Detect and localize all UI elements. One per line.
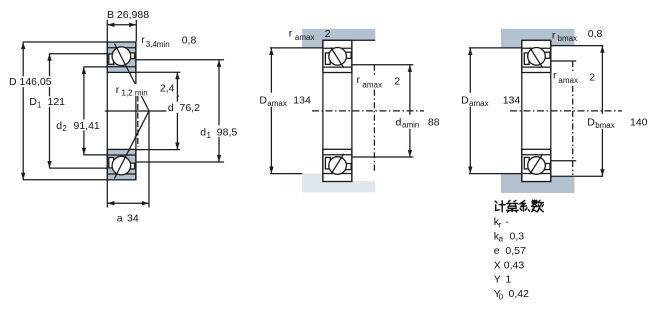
svg-text:X: X <box>494 259 501 271</box>
bearing bottom edge <box>323 180 352 182</box>
svg-text:2: 2 <box>325 28 331 40</box>
shaft shoulder leader bottom <box>551 160 576 162</box>
svg-text:d: d <box>168 102 174 114</box>
ra leader vertical <box>572 61 574 175</box>
svg-text:d: d <box>200 127 206 139</box>
svg-text:amax: amax <box>267 99 287 108</box>
label r1,2 min <box>114 84 152 98</box>
ra leader vertical <box>373 65 375 172</box>
label Damax 134 <box>258 93 311 108</box>
label ramax 2 (middle) <box>355 74 400 90</box>
svg-text:bmax: bmax <box>558 34 578 43</box>
bearing lower section <box>323 149 352 181</box>
bearing left face line <box>521 40 523 181</box>
dimension line d <box>175 72 179 149</box>
dimension line B <box>107 23 136 27</box>
Damax bottom leader + tab top edge <box>469 173 522 175</box>
dimension line a <box>107 201 149 205</box>
label rbmax 0,8 <box>552 28 603 43</box>
dimension line D <box>21 42 25 180</box>
label r3,4min 0,8 <box>141 34 196 49</box>
svg-text:d: d <box>56 120 62 132</box>
row e 0,57 <box>494 245 526 257</box>
svg-text:121: 121 <box>48 96 66 108</box>
bearing bottom edge <box>522 181 551 183</box>
svg-text:88: 88 <box>428 116 440 128</box>
dimension B extension lines <box>107 20 136 42</box>
label a 34 <box>117 213 139 225</box>
svg-text:1: 1 <box>207 131 212 140</box>
mirrored pale tab (bottom left) <box>302 174 323 181</box>
tab b bottom edge + Dbmax top leader <box>551 45 604 47</box>
svg-text:D 146,05: D 146,05 <box>9 76 52 88</box>
svg-text:0,8: 0,8 <box>588 28 603 40</box>
dimension a extension lines <box>107 111 149 208</box>
label D1 121 <box>29 96 65 109</box>
housing shoulder bar (top) <box>302 29 375 41</box>
row X 0,43 <box>494 259 525 271</box>
svg-text:r: r <box>116 84 120 96</box>
dimension line Dbmax <box>600 46 604 177</box>
svg-text:2: 2 <box>62 124 67 133</box>
heading 计算系数 (drawn strokes) <box>495 200 543 212</box>
shoulder tab (top left) <box>501 40 522 48</box>
svg-text:0,43: 0,43 <box>504 259 525 271</box>
axis line <box>105 110 170 112</box>
shoulder bottom edge + Damax top leader <box>469 47 522 49</box>
shaft shoulder leader top <box>352 64 414 66</box>
svg-text:1: 1 <box>505 274 511 286</box>
dimension D leaders <box>23 42 108 180</box>
svg-text:bmax: bmax <box>595 121 615 130</box>
r1,2 leader line <box>137 96 139 148</box>
row ka 0,3 <box>494 230 525 243</box>
dimension line Damax <box>269 48 273 174</box>
label 2,4 <box>160 83 179 97</box>
bar bottom edge <box>323 39 375 41</box>
svg-text:134: 134 <box>293 95 311 107</box>
svg-text:134: 134 <box>503 95 521 107</box>
row Y 1 <box>494 274 512 286</box>
dimension line damin <box>408 65 412 157</box>
shoulder tab b (top right) <box>551 40 575 45</box>
label damin 88 <box>394 115 440 130</box>
svg-text:D: D <box>259 95 267 107</box>
svg-text:r: r <box>552 29 556 41</box>
label ramax (top) <box>289 27 331 42</box>
housing bar (top) <box>501 29 575 41</box>
row kr - <box>494 216 510 229</box>
bearing right face line <box>550 40 552 181</box>
mirrored tab (bottom left) <box>501 174 522 182</box>
svg-text:D: D <box>461 95 469 107</box>
svg-text:0,42: 0,42 <box>509 288 530 300</box>
bearing right face line <box>135 42 137 180</box>
row Y0 0,42 <box>494 288 529 301</box>
label d2 91,41 <box>56 120 103 134</box>
svg-text:76,2: 76,2 <box>180 102 201 114</box>
housing shoulder tab (top left) <box>302 40 323 48</box>
svg-text:0,57: 0,57 <box>505 245 526 257</box>
dimension line d2 <box>82 67 86 155</box>
bearing upper section <box>323 40 352 72</box>
svg-text:1: 1 <box>37 100 42 109</box>
mirrored tab b (bottom right) <box>551 176 575 181</box>
svg-text:a: a <box>117 213 123 225</box>
label d 76,2 <box>166 102 201 114</box>
svg-text:d: d <box>396 116 402 128</box>
dimension line Damax <box>468 48 472 174</box>
svg-text:e: e <box>494 245 500 257</box>
svg-text:amax: amax <box>295 33 315 42</box>
mirrored pale bar (bottom) <box>302 181 375 193</box>
svg-text:1,2 min: 1,2 min <box>122 89 148 98</box>
shoulder bottom edge + Damax top leader <box>270 47 323 49</box>
svg-text:B 26,988: B 26,988 <box>107 9 149 21</box>
contact angle line upper <box>115 44 150 111</box>
svg-text:amax: amax <box>558 76 578 85</box>
axis line <box>510 110 622 112</box>
svg-text:3,4min: 3,4min <box>146 40 170 49</box>
svg-text:amax: amax <box>362 80 382 89</box>
bearing left face line <box>322 40 324 181</box>
shaft shoulder leader bottom <box>352 156 414 158</box>
label B 26,988 <box>107 9 149 21</box>
svg-text:amin: amin <box>402 121 419 130</box>
dimension d2 leaders <box>83 67 107 155</box>
label Dbmax 140 <box>586 114 649 130</box>
svg-text:r: r <box>553 69 557 81</box>
bearing right face line <box>351 40 353 181</box>
bearing lower section <box>107 149 136 179</box>
contact angle line lower <box>115 111 150 178</box>
label ramax 2 (middle) <box>552 69 596 85</box>
bar bottom edge <box>522 39 551 41</box>
svg-text:r: r <box>499 220 502 229</box>
dimension d1 leaders <box>136 60 224 162</box>
svg-text:r: r <box>357 74 361 86</box>
bearing left face line <box>106 42 108 180</box>
svg-text:34: 34 <box>127 213 139 225</box>
svg-text:r: r <box>289 27 293 39</box>
svg-text:2: 2 <box>589 71 595 83</box>
svg-text:D: D <box>587 117 595 129</box>
bearing upper section <box>107 42 136 72</box>
svg-text:2,4: 2,4 <box>160 83 175 95</box>
tab b top edge + Dbmax bottom leader <box>551 175 604 177</box>
svg-text:Y: Y <box>494 274 501 286</box>
dimension line d1 <box>217 60 221 162</box>
shaft shoulder leader top <box>551 60 576 62</box>
svg-text:91,41: 91,41 <box>74 120 100 132</box>
Damax bottom leader <box>270 173 302 175</box>
svg-text:140: 140 <box>630 117 648 129</box>
bearing lower section <box>522 149 551 181</box>
svg-text:0,8: 0,8 <box>182 35 197 47</box>
svg-text:-: - <box>505 216 509 228</box>
svg-text:2: 2 <box>394 75 400 87</box>
mirrored bar (bottom) <box>501 182 575 194</box>
svg-text:0,3: 0,3 <box>510 230 525 242</box>
svg-text:amax: amax <box>469 99 489 108</box>
dimension d leaders <box>136 72 180 149</box>
dimension line D1 <box>47 54 51 168</box>
svg-text:a: a <box>499 235 504 244</box>
label d1 98,5 <box>199 125 241 140</box>
svg-text:0: 0 <box>499 292 504 301</box>
dimension D1 leaders <box>49 54 107 168</box>
axis line <box>312 110 424 112</box>
bearing upper section <box>522 40 551 72</box>
svg-text:98,5: 98,5 <box>217 127 238 139</box>
label Damax 134 <box>460 93 520 108</box>
svg-text:r: r <box>141 34 145 46</box>
label D 146,05 <box>9 76 57 88</box>
